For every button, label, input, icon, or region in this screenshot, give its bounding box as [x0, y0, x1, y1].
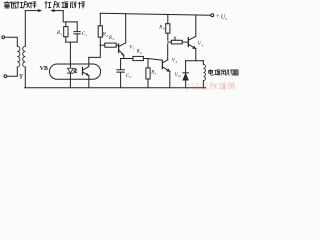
- wire terminal to primary bottom: [7, 67, 17, 76]
- diode VD: [185, 61, 187, 73]
- wire: bottom bar down to optocoupler LED: [69, 42, 71, 68]
- phototransistor emitter: [83, 72, 89, 76]
- svg-text:R: R: [172, 37, 176, 42]
- flame-sense needle arrow (打火确认针 electrode): [51, 9, 64, 12]
- transformer T primary winding: [17, 46, 20, 67]
- transistor V3: [187, 38, 189, 47]
- wire: V2 emitter to ground rail: [169, 71, 171, 87]
- wire: flame needle down and over to R1/C1 top bar: [63, 11, 77, 22]
- svg-text:R: R: [158, 25, 162, 30]
- supply terminal: [211, 14, 214, 17]
- label 打火确认针 (pseudo-glyphs): [45, 2, 85, 9]
- resistor R3: [100, 44, 105, 46]
- wire: V3 collector to rail: [195, 15, 197, 36]
- svg-text:s: s: [226, 17, 228, 21]
- wire: photo collector up to R2/R3 node: [89, 45, 101, 57]
- resistor R6: [167, 15, 169, 24]
- svg-text:+: +: [216, 13, 220, 20]
- wire: R1/C1 bottom bar: [66, 41, 77, 43]
- svg-text:1: 1: [133, 47, 135, 51]
- label 电磁阀线圈 (pseudo-glyphs): [209, 70, 239, 76]
- svg-text:VB: VB: [40, 66, 48, 72]
- primary terminal top: [2, 36, 5, 39]
- LED inside optocoupler: [67, 68, 73, 73]
- resistor R1: [64, 27, 68, 37]
- resistor R7: [168, 41, 172, 43]
- wire terminal to primary top: [5, 37, 18, 46]
- wire: V1 emitter to R4: [121, 55, 133, 58]
- spark needle arrow (高压打火针 electrode): [25, 9, 42, 12]
- wire: photo emitter to ground rail: [88, 76, 90, 88]
- capacitor C2: [117, 59, 124, 88]
- svg-text:3: 3: [201, 44, 203, 48]
- resistor R4: [133, 56, 144, 60]
- svg-text:2: 2: [129, 75, 131, 79]
- svg-text:1: 1: [61, 32, 63, 36]
- wire: R4 to V2 base: [143, 59, 162, 61]
- resistor R5: [147, 59, 149, 68]
- transformer T secondary winding: [23, 46, 26, 67]
- resistor R2: [99, 13, 101, 25]
- svg-text:D: D: [178, 74, 181, 78]
- svg-text:T: T: [19, 75, 23, 81]
- label 高压打火针 (pseudo-glyphs): [4, 2, 36, 9]
- wire: secondary bottom to ground rail: [24, 67, 26, 88]
- wire: V1 collector to rail: [125, 14, 127, 43]
- phototransistor base bar: [82, 67, 84, 74]
- watermark: [185, 83, 235, 91]
- svg-text:6: 6: [163, 27, 165, 31]
- transistor V2: [161, 61, 163, 69]
- LED light arrows: [73, 68, 77, 72]
- LED cathode to ground rail: [69, 73, 71, 88]
- wire: V3 emitter down to node bar: [195, 49, 197, 61]
- solenoid valve coil: [202, 61, 204, 65]
- phototransistor collector: [83, 57, 89, 70]
- optocoupler VB body: [49, 64, 100, 79]
- node bar over VD and coil: [186, 60, 204, 62]
- transistor V1: [118, 44, 120, 53]
- wire: spark needle to transformer secondary top: [24, 11, 26, 47]
- top supply rail: [100, 13, 211, 15]
- ground/return rail: [25, 87, 206, 89]
- primary terminal bottom: [4, 75, 7, 78]
- svg-text:5: 5: [155, 72, 157, 76]
- svg-text:3: 3: [112, 37, 114, 41]
- svg-text:2: 2: [176, 60, 178, 64]
- svg-text:1: 1: [85, 33, 87, 37]
- svg-text:4: 4: [140, 51, 142, 55]
- svg-text:2: 2: [106, 34, 108, 38]
- wire: V2 collector up to R6/R7 node: [167, 44, 169, 60]
- capacitor C1: [74, 32, 80, 34]
